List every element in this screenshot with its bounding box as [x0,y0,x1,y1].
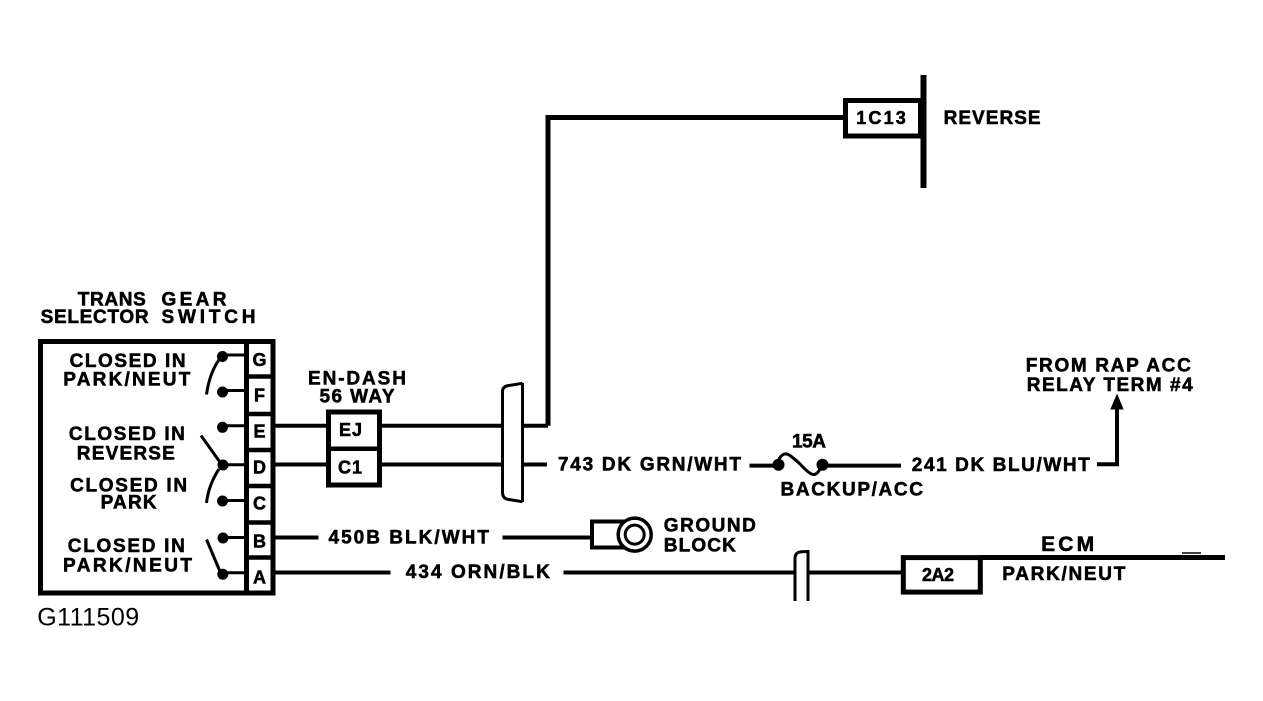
switch blade D-C [207,469,220,503]
svg-text:434 ORN/BLK: 434 ORN/BLK [406,562,550,583]
svg-text:BACKUP/ACC: BACKUP/ACC [781,480,924,501]
svg-text:ECM: ECM [1041,533,1094,556]
wire pin D to cavity C1 [274,463,329,467]
svg-text:CLOSED IN: CLOSED IN [68,536,185,557]
svg-text:EJ: EJ [339,420,362,440]
switch contact dot pin B [218,533,247,544]
wire 743 label to fuse [750,464,775,468]
svg-text:C1: C1 [338,457,362,477]
label GROUND BLOCK [664,516,756,557]
wire 450B to ground block [503,536,593,540]
wire 434 label to inline connector [564,571,794,575]
wire inline connector to 2A2 [810,571,902,575]
svg-text:450B BLK/WHT: 450B BLK/WHT [329,528,490,549]
svg-text:743 DK GRN/WHT: 743 DK GRN/WHT [558,455,741,476]
ECM terminal 2A2 box [903,558,980,593]
svg-text:B: B [253,532,266,552]
wire pin E to cavity EJ [274,424,329,428]
switch contact dot pin D [218,460,247,471]
svg-text:GROUND: GROUND [664,516,756,537]
switch contact dot pin F [217,387,246,398]
wire pin B stub [274,536,319,540]
connector pin column (pins G-A) [244,342,274,594]
REVERSE lamp bus bar [921,75,927,188]
svg-text:REVERSE: REVERSE [944,108,1041,129]
svg-text:2A2: 2A2 [922,565,954,585]
svg-text:PARK: PARK [101,493,157,514]
label: CLOSED IN PARK/NEUT (pins G/F) [63,351,190,390]
svg-text:C: C [253,494,266,514]
svg-text:PARK/NEUT: PARK/NEUT [1002,564,1125,585]
label: CLOSED IN REVERSE (pin D) [69,424,185,465]
switch contact dot pin E [217,422,246,433]
wire vertical run to reverse lamp [546,118,551,426]
svg-text:SELECTOR: SELECTOR [41,307,149,328]
arrowhead to RAP ACC relay [1110,394,1123,410]
switch contact dot pin G [217,351,246,362]
svg-text:D: D [253,458,266,478]
svg-text:E: E [253,422,265,442]
label: CLOSED IN PARK (pin C) [70,476,187,514]
scan artifact above ECM line [1182,552,1201,554]
trans gear selector switch box S1 [41,342,247,594]
wire C1 row stub to 743 label [524,463,547,467]
svg-text:REVERSE: REVERSE [77,444,175,465]
svg-text:PARK/NEUT: PARK/NEUT [63,555,192,576]
svg-text:241 DK BLU/WHT: 241 DK BLU/WHT [912,455,1090,476]
switch blade E-D [201,436,220,462]
svg-text:CLOSED IN: CLOSED IN [69,424,185,445]
svg-text:1C13: 1C13 [856,108,906,128]
svg-text:F: F [254,386,265,406]
switch blade G-F [207,359,220,395]
wire horizontal run to 1C13 [546,115,846,120]
ECM boundary line [981,555,1225,560]
label: EN-DASH 56 WAY [308,369,406,408]
ground block ring terminal [592,518,651,551]
svg-text:RELAY TERM #4: RELAY TERM #4 [1027,375,1193,396]
svg-text:PARK/NEUT: PARK/NEUT [63,369,190,390]
wire EJ to inline connector [380,424,502,428]
label: CLOSED IN PARK/NEUT (pins B/A) [63,536,192,576]
svg-text:BLOCK: BLOCK [664,536,736,557]
svg-text:56 WAY: 56 WAY [320,387,395,408]
wire 241 jog to arrow [1097,407,1117,464]
wire fuse to 241 label [828,464,901,468]
wire pin A stub [274,571,391,575]
label: TRANS GEAR SELECTOR SWITCH title [41,290,256,329]
svg-text:A: A [253,568,266,588]
wire inline connector to corner (743 circuit up) [524,424,548,428]
svg-text:G: G [252,350,266,370]
label FROM RAP ACC RELAY TERM #4 [1026,355,1193,396]
svg-text:15A: 15A [792,432,826,453]
switch contact dot pin C [217,496,246,507]
switch contact dot pin A [217,569,246,580]
wire C1 to inline connector [380,463,502,467]
inline connector (434 circuit) [795,550,808,601]
svg-text:FROM RAP ACC: FROM RAP ACC [1026,355,1191,376]
fuse 15A BACKUP/ACC [773,454,829,475]
switch blade B-A [207,540,221,572]
connector terminal 1C13 box [846,101,921,137]
inline connector (bulkhead half-shell) [503,383,523,502]
connector EN-DASH 56 WAY cavity box (EJ/C1) [326,412,382,485]
svg-text:G111509: G111509 [37,603,139,631]
